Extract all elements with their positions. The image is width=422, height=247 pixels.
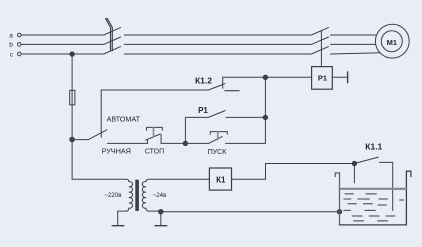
breaker tie bar with handle [106,19,113,51]
transformer T1 core [135,180,139,211]
wire phase b to motor [331,43,377,45]
breaker pole c blade [104,47,121,54]
node: secondary bottom junction [159,210,163,214]
svg-text:Р1: Р1 [318,74,327,83]
tank right wall with lip [406,171,411,225]
contact P1 aux wire [185,116,208,118]
wire: РУЧНАЯ rail to СТОП [107,142,147,144]
contact K1.1 fixed wire [380,161,393,163]
svg-text:К1.1: К1.1 [365,141,382,151]
contact P1 aux riser [184,117,186,143]
svg-text:К1.2: К1.2 [195,75,212,85]
wire: K1.2 to P1 coil [223,76,312,78]
button СТОП left post [147,140,149,144]
wire: top control rail to K1.2 [101,89,208,91]
wire: secondary bottom to tank [161,211,340,213]
button ПУСК blade [209,137,223,144]
breaker pole a blade [104,28,121,35]
node: junction on phase c [70,52,74,56]
button СТОП plunger cap [147,127,163,130]
ground right stem [160,212,162,226]
contact P1 aux blade [208,111,225,118]
svg-text:К1: К1 [216,176,226,185]
fuse F1 [70,90,75,105]
node: junction СТОП/ПУСК/P1 [183,141,187,145]
wire phase a to motor [331,34,379,36]
water dashes [344,194,404,221]
coil K1 box [209,168,231,190]
ground left [112,225,124,227]
button СТОП blade [146,134,161,140]
svg-text:Р1: Р1 [198,106,208,115]
button СТОП plunger stem [153,128,155,137]
node: selector common junction [70,137,75,142]
contact P1 aux fixed wire [226,116,265,118]
tank bottom [340,224,407,226]
node: K1.1 junction [352,161,356,165]
wire phase c middle [124,53,311,55]
wire phase a left [21,34,104,36]
selector switch common wire [72,139,88,141]
wire: K1 to corner riser [232,164,355,180]
motor M1 [375,24,409,58]
wire phase a middle [124,34,311,36]
contactor P1 main blade b [311,37,328,44]
terminal a [18,33,22,37]
selector blade [88,130,107,140]
svg-text:b: b [9,42,13,49]
wire: left rail down to transformer [71,140,73,180]
wire: ПУСК to right riser [226,77,266,143]
button ПУСК plunger cap [210,132,227,135]
wire phase b middle [124,43,311,45]
tank left wall with lip [335,173,339,225]
terminal b [18,43,22,47]
node: junction P1 aux to riser [263,115,267,119]
svg-text:ПУСК: ПУСК [208,149,228,156]
electrode short [353,164,355,183]
svg-text:М1: М1 [387,38,397,47]
node: junction on K1.2-P1 wire [263,75,267,79]
contact K1.1 blade [354,157,378,163]
contactor P1 main blade a [311,28,328,35]
transformer T1 secondary winding [142,179,209,211]
transformer T1 primary winding [72,179,132,225]
wire: junction to ПУСК [185,142,208,144]
electrode long [392,162,394,210]
button СТОП right post [160,134,162,143]
ground right bar [155,225,167,227]
svg-text:АВТОМАТ: АВТОМАТ [107,114,141,123]
coil P1 box [312,67,333,90]
button ПУСК plunger stem [217,132,219,140]
node: tank wall junction [337,210,341,214]
svg-text:~220в: ~220в [104,192,122,199]
breaker pole b blade [104,37,121,44]
contact K1.2 open dash [225,90,239,92]
wire: СТОП to junction [161,142,185,144]
svg-text:СТОП: СТОП [145,149,164,156]
selector upper contact riser [100,90,102,137]
svg-text:РУЧНАЯ: РУЧНАЯ [102,147,131,156]
contactor P1 main blade c [311,47,328,54]
water surface [340,188,407,190]
terminal c [18,52,22,56]
wire: P1 coil to terminator [332,76,347,78]
wire phase c left [21,53,104,55]
svg-text:a: a [9,32,13,39]
contact K1.2 blade [209,84,225,90]
wire phase b left [21,43,104,45]
contactor P1 mechanical link [320,31,322,67]
svg-text:~24в: ~24в [153,192,167,199]
wire phase c to motor [331,53,382,54]
contact K1.2 riser [222,77,224,88]
terminator bar [347,72,349,83]
wire: phase c down to fuse and selector [71,54,73,139]
